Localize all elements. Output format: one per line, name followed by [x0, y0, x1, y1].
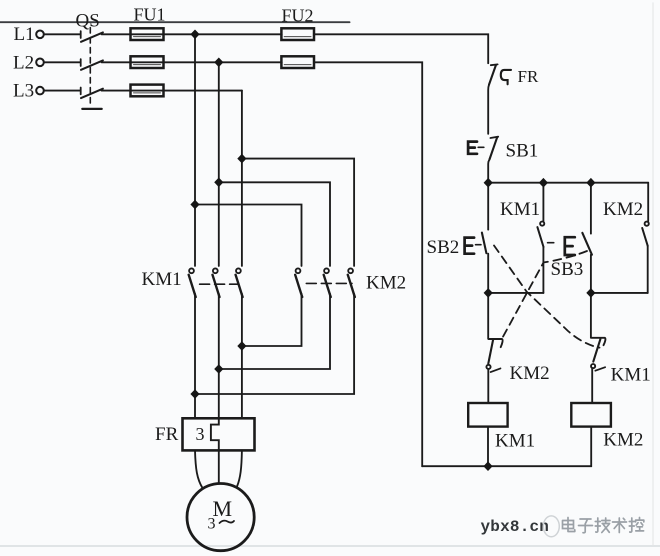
- junction control bus at KM1 aux branch: [539, 178, 548, 188]
- node L3 terminal: [36, 87, 44, 95]
- contactor KM1 main contact pole 3: [236, 268, 243, 297]
- wire L2 to QS: [44, 61, 80, 63]
- wire L1 to QS: [44, 33, 80, 35]
- wire FR box to motor left: [195, 450, 203, 488]
- coil KM2: [571, 403, 611, 427]
- motor M circle: [187, 483, 254, 550]
- junction control bus at SB3 branch: [586, 178, 595, 188]
- junction W branch top: [237, 154, 246, 164]
- svg-text:QS: QS: [76, 11, 100, 32]
- wire FR box to motor middle: [218, 450, 220, 483]
- wire coil KM1 to bottom bus: [487, 427, 489, 467]
- wire KM2 pole1 crossover to W: [242, 294, 302, 346]
- node L1 terminal: [36, 31, 44, 39]
- contactor KM2 main contact pole 3: [348, 268, 355, 297]
- button SB3 NC contact: [548, 183, 592, 293]
- junction U branch top: [190, 200, 199, 210]
- relay FR NC contact: [488, 64, 497, 133]
- switch QS handle bar: [82, 108, 101, 110]
- contactor KM1 linkage dashes: [200, 283, 239, 285]
- wire phase U vertical upper: [194, 34, 196, 266]
- svg-text:KM1: KM1: [495, 430, 535, 451]
- frame top partial line: [0, 21, 350, 23]
- watermark logo circle: [543, 516, 559, 537]
- svg-text:KM1: KM1: [142, 269, 182, 290]
- svg-text:SB2: SB2: [427, 237, 460, 258]
- wire L2 row QS to FU2: [102, 61, 282, 63]
- wire mid bus left: [488, 292, 543, 294]
- svg-text:KM1: KM1: [500, 199, 540, 220]
- wire phase U vertical lower: [194, 294, 196, 419]
- junction W crossover bottom: [237, 341, 246, 351]
- button SB2 NO start button: [465, 183, 489, 293]
- fuse FU2 pole 2: [281, 56, 314, 68]
- wire mid bus right: [591, 292, 648, 294]
- fuse FU1 pole 2: [131, 56, 164, 68]
- switch QS pole 1: [81, 31, 103, 42]
- contactor KM2 main contact pole 1: [295, 268, 302, 297]
- interlock KM2 NC contact (left branch): [486, 293, 502, 403]
- wire FU2 L2 to left control rail: [314, 62, 422, 466]
- switch QS pole 3: [81, 88, 103, 99]
- svg-text:KM2: KM2: [603, 430, 643, 451]
- frame right faint line: [652, 3, 654, 545]
- coil KM1: [468, 403, 507, 427]
- svg-text:SB1: SB1: [506, 140, 539, 161]
- wire KM2 pole3 crossover to U: [195, 294, 354, 394]
- junction bottom bus: [483, 461, 492, 471]
- svg-text:FU1: FU1: [134, 5, 166, 25]
- wire L3 to QS: [44, 90, 80, 92]
- svg-text:FU2: FU2: [282, 6, 314, 26]
- junction U crossover bottom: [190, 389, 199, 399]
- button SB1 NC stop button: [468, 137, 498, 183]
- junction V crossover bottom: [214, 364, 223, 374]
- node L2 terminal: [36, 59, 44, 67]
- contactor KM1 aux NO contact: [537, 183, 544, 293]
- svg-text:FR: FR: [155, 424, 179, 445]
- wire phase V vertical upper: [218, 62, 220, 266]
- junction control bus at SB2 branch: [484, 178, 493, 188]
- contactor KM2 aux NO contact: [642, 183, 649, 293]
- junction L1/U: [190, 30, 199, 40]
- fuse FU2 pole 1: [281, 28, 314, 40]
- svg-text:FR: FR: [518, 67, 539, 86]
- svg-text:3: 3: [208, 516, 216, 533]
- contactor KM2 linkage dashes: [306, 282, 352, 284]
- wire phase W vertical lower: [241, 294, 243, 419]
- switch QS linkage dashed line: [89, 28, 91, 107]
- svg-text:KM2: KM2: [510, 363, 550, 384]
- wire KM2 pole2 crossover to V: [219, 294, 330, 369]
- svg-text:L1: L1: [14, 24, 35, 45]
- wire branch V to KM2 pole2: [219, 182, 330, 266]
- svg-text:KM1: KM1: [611, 364, 651, 385]
- wire branch W to KM2 pole3: [242, 159, 354, 266]
- thermal relay FR heater jog symbol: [211, 418, 219, 450]
- wire FU2 L1 to control rail corner: [314, 34, 488, 63]
- fuse FU1 pole 3: [131, 85, 164, 97]
- thermal relay FR heater box: [183, 418, 255, 450]
- wire phase V vertical lower: [218, 294, 220, 419]
- wire L1 row QS to FU2: [102, 33, 282, 35]
- wire phase W vertical upper: [241, 91, 243, 266]
- junction L2/V: [214, 58, 223, 68]
- dashed mechanical link SB2 to KM1 NC: [494, 246, 600, 348]
- contactor KM2 main contact pole 2: [324, 268, 331, 297]
- interlock KM1 NC contact (right branch): [591, 293, 606, 403]
- svg-text:ybx8.cn: ybx8.cn: [481, 518, 550, 536]
- svg-text:SB3: SB3: [551, 259, 584, 280]
- wire L3 row QS to corner: [102, 90, 242, 92]
- svg-text:KM2: KM2: [603, 199, 643, 220]
- contactor KM1 main contact pole 1: [189, 268, 196, 297]
- wire control bottom bus: [422, 465, 591, 467]
- svg-text:KM2: KM2: [366, 273, 406, 294]
- svg-text:L2: L2: [13, 52, 34, 73]
- fuse FU1 pole 1: [131, 28, 164, 40]
- junction mid bus right: [586, 288, 595, 298]
- junction mid bus left: [484, 288, 493, 298]
- wire coil KM2 to bottom bus: [590, 427, 592, 467]
- dashed mechanical link SB3 to KM2 NC: [502, 251, 588, 340]
- frame bottom faint line: [0, 545, 660, 547]
- wire FR box to motor right: [237, 450, 242, 486]
- junction V branch top: [214, 178, 223, 188]
- switch QS pole 2: [81, 59, 103, 70]
- watermark chinese text 电子技术控: [563, 518, 644, 533]
- svg-text:3: 3: [196, 424, 205, 444]
- wire branch U to KM2 pole1: [195, 205, 302, 266]
- relay FR thermal hook symbol: [501, 70, 511, 84]
- contactor KM1 main contact pole 2: [213, 268, 220, 297]
- wire control top bus: [488, 182, 648, 184]
- svg-text:L3: L3: [13, 80, 34, 101]
- motor tilde: [220, 521, 235, 523]
